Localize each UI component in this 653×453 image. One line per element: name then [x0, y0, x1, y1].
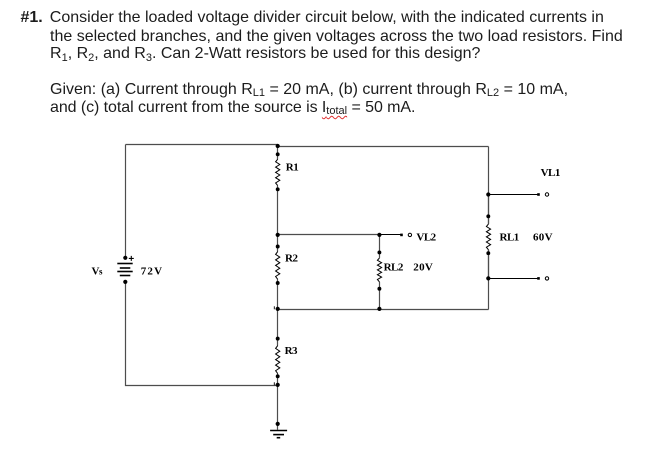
node bottom rail left	[276, 307, 280, 311]
pin dot R2 top	[276, 245, 280, 249]
problem statement text	[21, 10, 43, 26]
svg-text:72V: 72V	[141, 265, 164, 277]
wire VL2 stub	[380, 234, 402, 236]
pin tick at R3 top node	[273, 306, 275, 309]
wire VL1 top stub	[489, 194, 539, 196]
wire RL1 leads	[488, 195, 490, 279]
pin dot RL2 bottom	[377, 287, 381, 291]
wire RL2 leads	[379, 235, 381, 310]
ground	[270, 431, 287, 438]
pin dot RL1 bottom	[486, 251, 490, 255]
node R3 bottom / battery return	[276, 383, 280, 387]
battery Vs plates	[117, 264, 132, 276]
svg-text:Vs: Vs	[92, 265, 103, 277]
pin dot R1 bottom	[276, 187, 280, 191]
svg-text:20V: 20V	[413, 262, 433, 274]
node RL1 bottom	[486, 276, 490, 280]
pin dot R2 bottom	[276, 281, 280, 285]
pin tick at R3 bottom node	[273, 382, 275, 385]
svg-text:RL2: RL2	[384, 262, 404, 274]
open terminal circle VL1 top	[545, 193, 548, 196]
terminal square VL1 top	[537, 193, 540, 196]
open terminal circle VL2	[408, 233, 411, 236]
node RL1 top	[486, 192, 490, 196]
svg-text:R1: R1	[286, 162, 298, 174]
wire R3 leads	[277, 310, 279, 386]
node RL2 top	[377, 233, 381, 237]
battery plus sign	[129, 256, 134, 261]
open terminal circle VL1 bottom	[545, 277, 548, 280]
node RL2 bottom	[377, 307, 381, 311]
pin dot RL2 top	[377, 250, 381, 254]
pin dot R1 top	[276, 152, 280, 156]
resistor RL1	[486, 224, 490, 250]
wire top-right horizontal	[278, 146, 489, 148]
svg-text:R2: R2	[285, 252, 298, 264]
wire VL1 bottom stub	[489, 278, 539, 280]
resistor RL2	[377, 258, 381, 282]
wire R1 leads	[277, 146, 279, 235]
wire bottom rail	[278, 309, 489, 311]
pin dot RL1 top	[486, 214, 490, 218]
pin dot R3 top	[276, 337, 280, 341]
wire battery - down and across to R3 bottom	[126, 282, 278, 386]
wire right vertical lower (RL1 bottom to bottom rail)	[488, 250, 490, 310]
wire mid horizontal (R1/R2 node to RL2 top)	[278, 234, 380, 236]
resistor R1	[276, 159, 280, 185]
svg-text:VL1: VL1	[541, 167, 560, 179]
node R1/R2/VL2	[276, 233, 280, 237]
wire top-left horizontal	[126, 144, 279, 146]
terminal square VL2	[400, 234, 403, 237]
wire R2 leads	[277, 235, 279, 310]
wire left vertical (top to battery +)	[125, 145, 127, 258]
svg-text:RL1: RL1	[500, 231, 519, 243]
svg-text:VL2: VL2	[416, 231, 436, 243]
battery bottom dot	[123, 280, 127, 284]
wire right vertical upper (to RL1 top)	[488, 147, 490, 224]
svg-text:R3: R3	[285, 345, 298, 357]
resistor R3	[276, 346, 280, 374]
svg-text:60V: 60V	[533, 231, 553, 243]
pin dot R3 bottom	[276, 374, 280, 378]
wire ground lead	[277, 386, 279, 430]
node at R1 top	[276, 144, 280, 148]
ground dot	[276, 422, 280, 426]
battery top dot	[123, 256, 127, 260]
resistor R2	[276, 252, 280, 280]
terminal square VL1 bottom	[537, 277, 540, 280]
